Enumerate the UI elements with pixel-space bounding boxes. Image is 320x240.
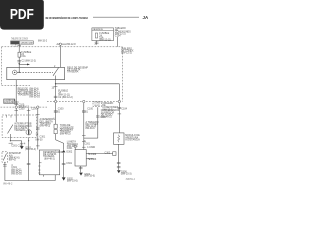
svg-text:TABLERO DE CONEX: TABLERO DE CONEX [11,38,28,41]
svg-text:CALIENTE EN: CALIENTE EN [93,28,103,31]
svg-text:(8W-15-6): (8W-15-6) [67,180,78,183]
svg-text:J968W-4: J968W-4 [125,178,135,181]
svg-text:2 C302: 2 C302 [89,153,97,156]
svg-text:C100: C100 [58,108,64,111]
svg-text:C104: C104 [121,108,127,111]
svg-text:C301: C301 [84,143,90,146]
svg-text:8W-30-16: 8W-30-16 [29,96,40,99]
svg-text:C301: C301 [66,162,72,165]
svg-text:8W-30-6: 8W-30-6 [86,127,96,130]
svg-text:(8W-48-2): (8W-48-2) [60,133,71,136]
svg-text:C301 C301: C301 C301 [11,144,24,147]
svg-text:(8W-12-11): (8W-12-11) [99,39,111,42]
svg-text:TRASERA: TRASERA [18,94,30,97]
svg-text:12: 12 [36,133,39,136]
svg-text:C2 (8W-12-2): C2 (8W-12-2) [22,60,37,63]
svg-text:8W-15-2: 8W-15-2 [38,40,48,43]
svg-text:(8W-15-4): (8W-15-4) [25,148,36,151]
svg-text:TRASERA: TRASERA [14,129,26,132]
svg-text:8W-48 DESEMPAÑADOR DE LUNETA T: 8W-48 DESEMPAÑADOR DE LUNETA TRASERA [46,15,89,20]
svg-text:CENTRO DIST: CENTRO DIST [21,43,34,45]
svg-text:10: 10 [52,87,55,90]
svg-text:C301: C301 [54,110,60,113]
svg-text:C301: C301 [82,110,88,113]
svg-text:ENCENDIDO: ENCENDIDO [4,101,18,104]
svg-text:SUPR: SUPR [94,105,100,107]
svg-text:8W-30-16: 8W-30-16 [11,173,22,176]
svg-text:C2 (8W-12-2): C2 (8W-12-2) [58,96,73,99]
svg-text:8W-42: 8W-42 [9,159,17,162]
svg-text:G302: G302 [66,150,73,153]
svg-text:C301: C301 [67,147,73,150]
svg-text:(8W-12-2): (8W-12-2) [121,52,132,55]
svg-text:8W-30: 8W-30 [36,139,44,142]
svg-text:C100: C100 [31,108,37,111]
svg-text:(8W-15-6): (8W-15-6) [84,175,95,178]
svg-text:C104: C104 [115,35,121,38]
svg-text:(8W-48-2): (8W-48-2) [40,125,51,128]
svg-text:(8W-48-2): (8W-48-2) [44,157,55,160]
svg-text:(8W-48-2): (8W-48-2) [101,116,112,119]
svg-text:JA: JA [143,15,149,20]
svg-text:C302: C302 [105,152,111,155]
svg-text:15A: 15A [21,55,26,58]
svg-text:A DISTANCIA: A DISTANCIA [125,138,140,141]
svg-text:4: 4 [24,142,26,145]
svg-text:C100: C100 [87,108,93,111]
svg-text:(8W-15-3): (8W-15-3) [121,173,132,176]
svg-text:8W-48-2: 8W-48-2 [3,182,13,185]
svg-text:PDF: PDF [10,6,34,23]
svg-text:TRASERA: TRASERA [67,71,79,74]
svg-text:1 C303: 1 C303 [89,158,97,161]
svg-text:8W-12-8: 8W-12-8 [67,43,77,46]
svg-text:C100: C100 [19,108,25,111]
svg-text:1 C300: 1 C300 [87,146,95,149]
